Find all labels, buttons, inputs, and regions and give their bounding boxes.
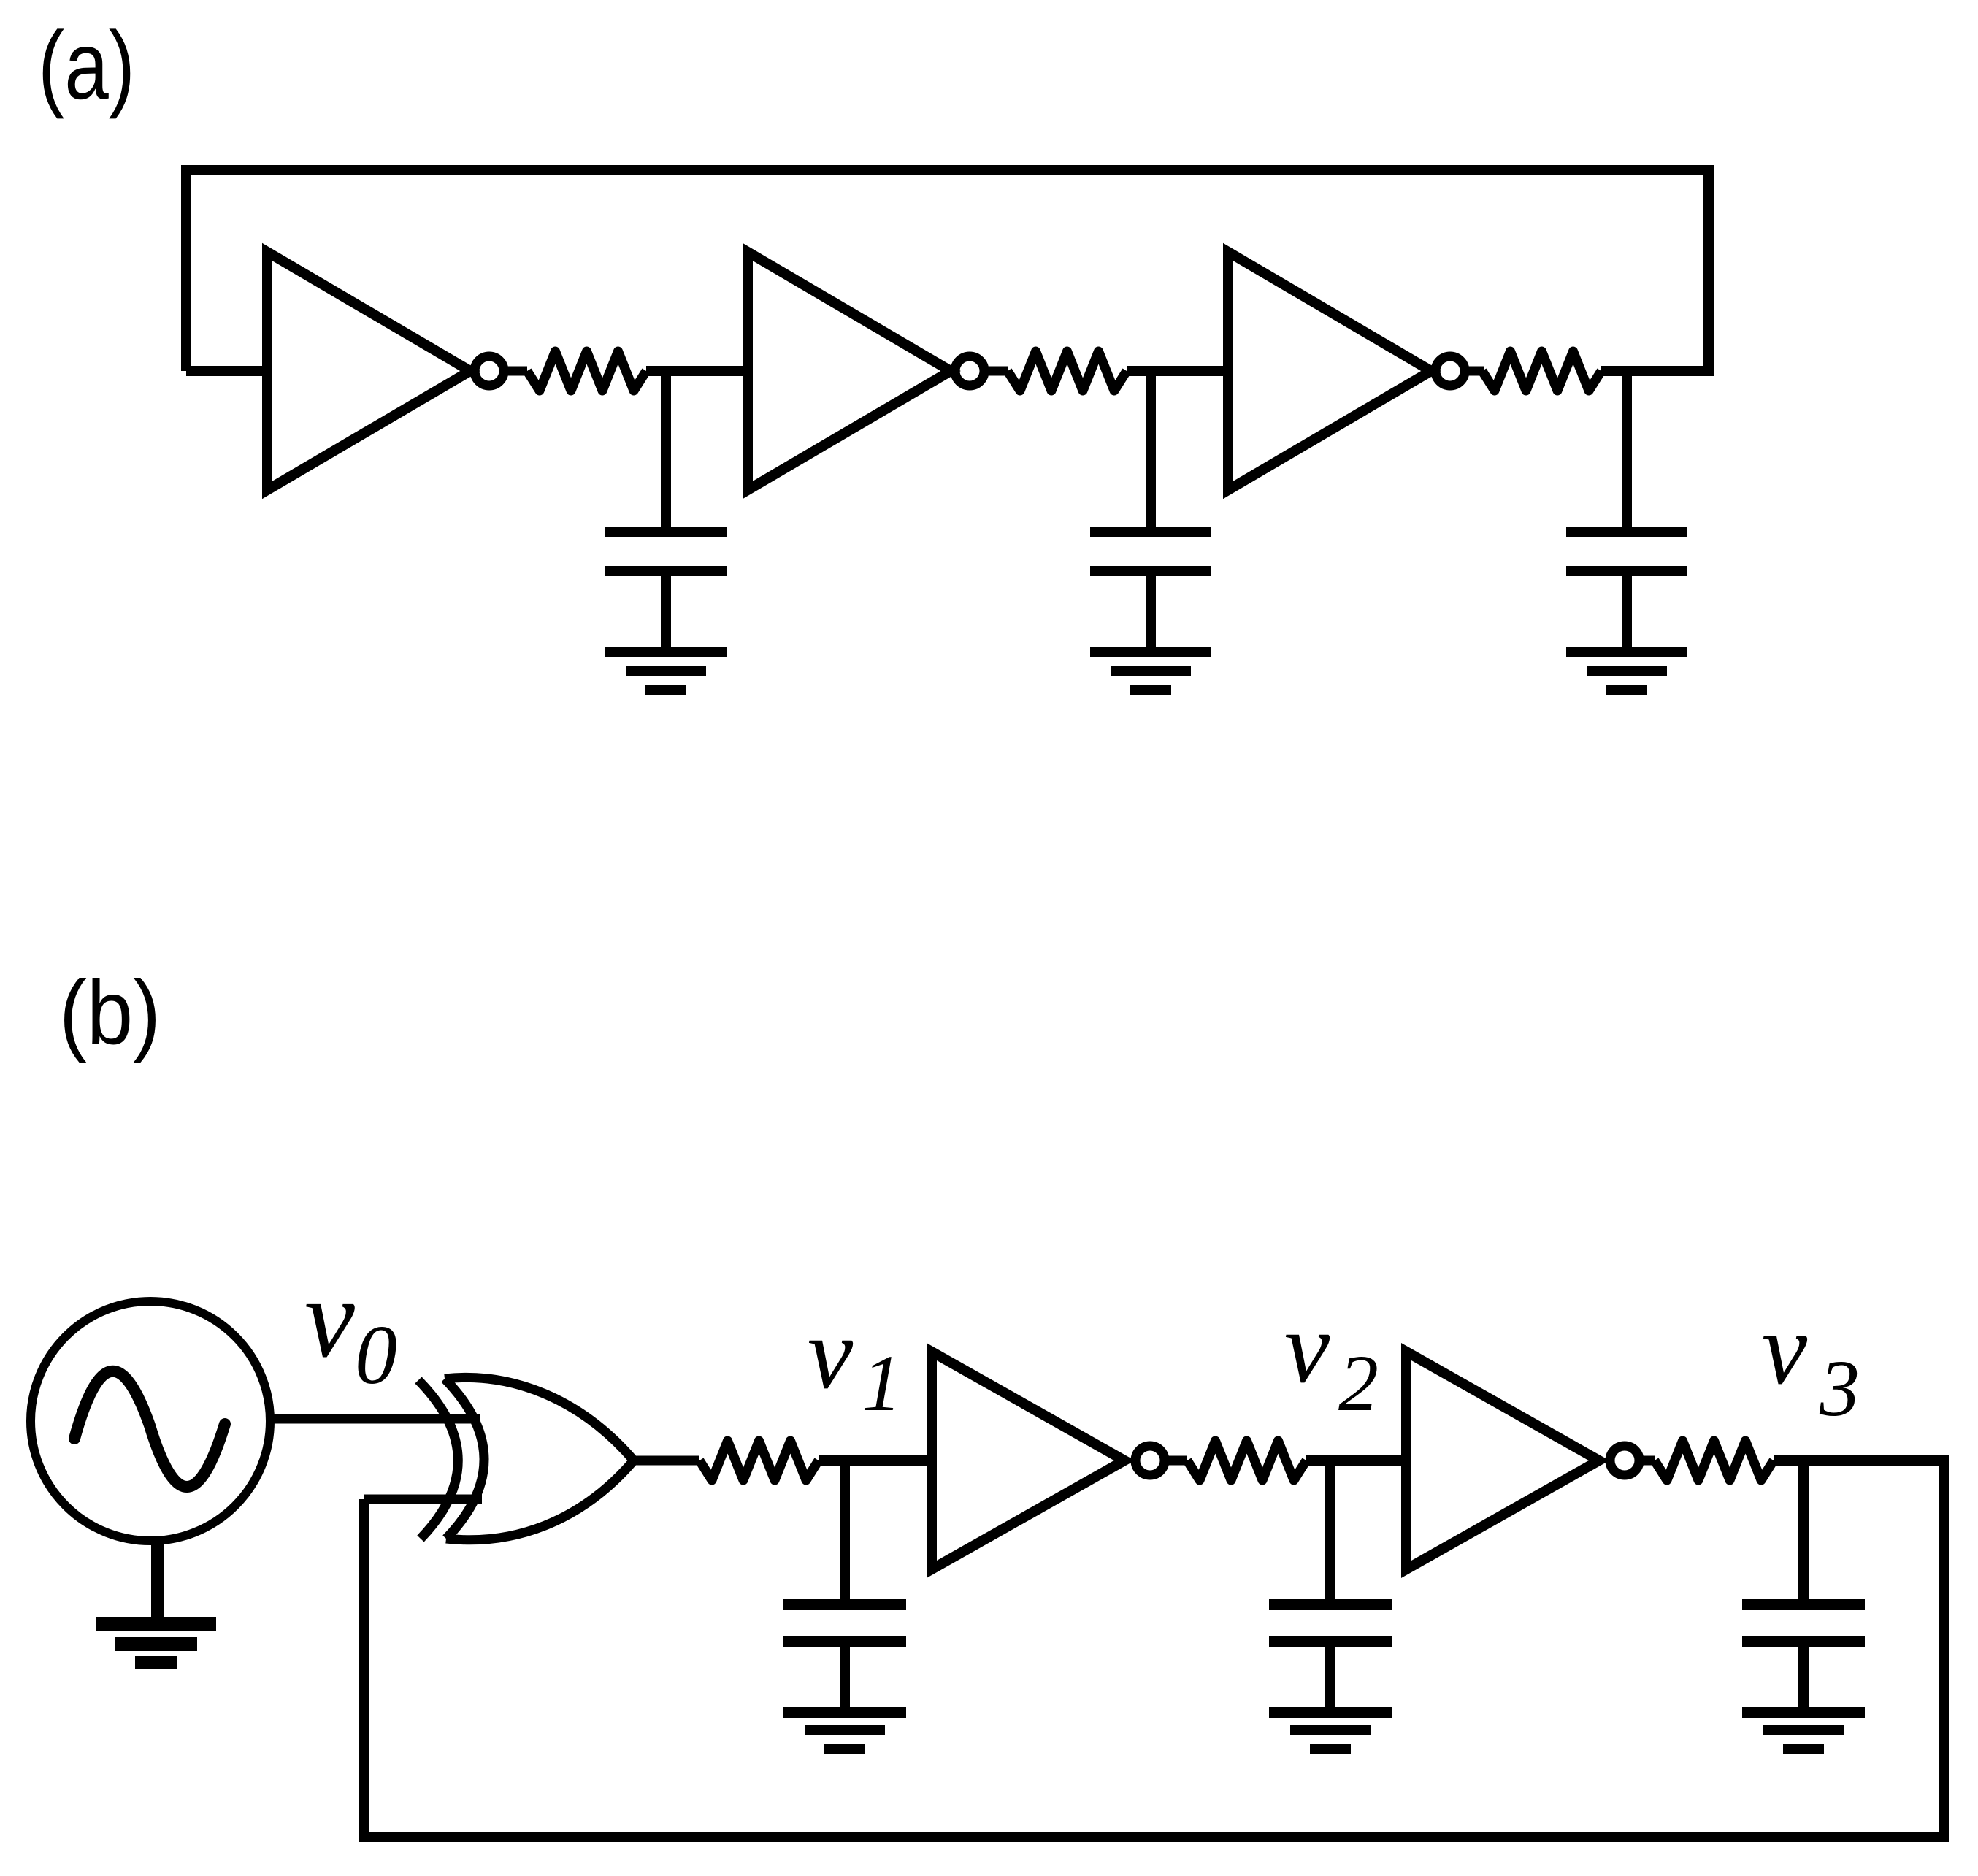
svg-text:v: v: [304, 1255, 355, 1381]
svg-text:v: v: [1762, 1293, 1808, 1406]
svg-text:0: 0: [355, 1309, 397, 1402]
svg-text:(a): (a): [38, 12, 135, 119]
svg-text:(b): (b): [59, 962, 161, 1063]
svg-text:1: 1: [862, 1339, 902, 1428]
svg-text:2: 2: [1338, 1339, 1379, 1428]
svg-text:3: 3: [1819, 1344, 1860, 1433]
svg-text:v: v: [1284, 1291, 1330, 1404]
svg-text:v: v: [808, 1297, 854, 1410]
